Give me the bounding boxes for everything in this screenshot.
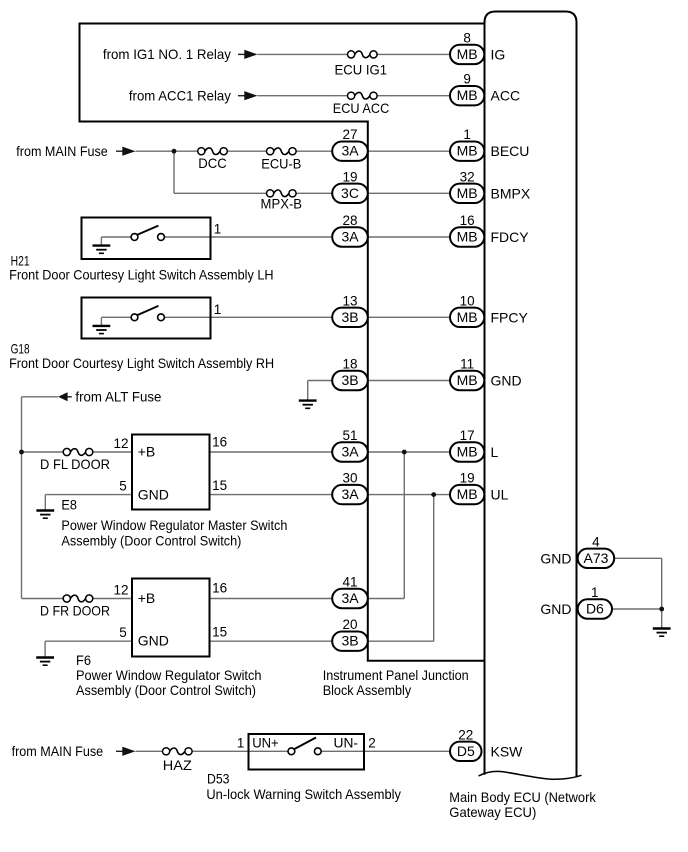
svg-text:MB: MB <box>457 46 478 62</box>
svg-text:5: 5 <box>119 479 127 494</box>
svg-text:ECU IG1: ECU IG1 <box>335 61 388 77</box>
svg-text:15: 15 <box>212 624 227 639</box>
svg-text:13: 13 <box>342 293 357 308</box>
svg-text:16: 16 <box>212 581 227 596</box>
svg-text:1: 1 <box>237 736 245 751</box>
svg-text:GND: GND <box>138 633 169 649</box>
svg-text:3A: 3A <box>341 590 359 606</box>
svg-text:4: 4 <box>592 534 600 549</box>
svg-text:MB: MB <box>457 185 478 201</box>
svg-text:3A: 3A <box>341 486 359 502</box>
svg-text:GND: GND <box>491 373 522 389</box>
svg-text:3A: 3A <box>341 143 359 159</box>
svg-text:BMPX: BMPX <box>491 185 531 201</box>
svg-text:KSW: KSW <box>491 743 524 759</box>
svg-text:UL: UL <box>491 487 509 503</box>
svg-text:+B: +B <box>138 443 156 459</box>
svg-text:19: 19 <box>460 471 475 486</box>
svg-text:30: 30 <box>342 471 357 486</box>
svg-text:L: L <box>491 444 499 460</box>
svg-text:MB: MB <box>457 87 478 103</box>
svg-text:3B: 3B <box>341 372 358 388</box>
svg-text:A73: A73 <box>584 550 609 566</box>
svg-text:ECU-B: ECU-B <box>261 155 301 171</box>
svg-text:11: 11 <box>460 357 474 372</box>
svg-text:16: 16 <box>460 213 475 228</box>
svg-text:GND: GND <box>540 601 571 617</box>
svg-text:MB: MB <box>457 444 478 460</box>
svg-text:MB: MB <box>457 309 478 325</box>
svg-text:from ALT Fuse: from ALT Fuse <box>75 389 161 405</box>
svg-text:MB: MB <box>457 143 478 159</box>
svg-text:DCC: DCC <box>198 155 227 171</box>
svg-text:Main Body ECU (Network: Main Body ECU (Network <box>449 789 596 805</box>
svg-text:Power Window Regulator Master: Power Window Regulator Master Switch <box>61 517 287 533</box>
svg-text:5: 5 <box>119 625 127 640</box>
svg-text:15: 15 <box>212 478 227 493</box>
svg-text:3C: 3C <box>341 185 359 201</box>
svg-text:HAZ: HAZ <box>163 757 192 773</box>
svg-text:FDCY: FDCY <box>491 229 530 245</box>
svg-text:32: 32 <box>460 169 475 184</box>
svg-text:F6: F6 <box>76 652 91 668</box>
svg-text:ACC: ACC <box>491 88 521 104</box>
svg-text:16: 16 <box>212 434 227 449</box>
svg-text:Instrument Panel Junction: Instrument Panel Junction <box>323 667 469 683</box>
svg-text:12: 12 <box>113 582 128 597</box>
svg-text:IG: IG <box>491 46 506 62</box>
svg-text:MB: MB <box>457 486 478 502</box>
svg-text:UN-: UN- <box>334 735 359 751</box>
svg-text:Assembly (Door Control Switch): Assembly (Door Control Switch) <box>76 682 256 698</box>
svg-text:MB: MB <box>457 372 478 388</box>
svg-text:22: 22 <box>458 727 473 742</box>
svg-text:10: 10 <box>460 293 475 308</box>
svg-text:41: 41 <box>342 575 357 590</box>
svg-text:Block Assembly: Block Assembly <box>323 682 412 698</box>
svg-text:E8: E8 <box>61 497 77 513</box>
svg-text:1: 1 <box>591 585 599 600</box>
svg-text:1: 1 <box>214 222 222 237</box>
svg-text:17: 17 <box>460 428 475 443</box>
svg-text:2: 2 <box>368 736 376 751</box>
svg-text:from IG1 NO. 1 Relay: from IG1 NO. 1 Relay <box>103 46 231 62</box>
svg-text:Front Door Courtesy Light Swit: Front Door Courtesy Light Switch Assembl… <box>9 266 274 282</box>
svg-text:MPX-B: MPX-B <box>261 196 303 212</box>
svg-text:18: 18 <box>342 357 357 372</box>
svg-text:GND: GND <box>138 486 169 502</box>
svg-text:D53: D53 <box>207 771 230 787</box>
svg-text:27: 27 <box>342 127 357 142</box>
svg-text:FPCY: FPCY <box>491 309 529 325</box>
svg-text:+B: +B <box>138 590 156 606</box>
svg-text:Front Door Courtesy Light Swit: Front Door Courtesy Light Switch Assembl… <box>9 355 274 371</box>
svg-text:3B: 3B <box>341 309 358 325</box>
svg-text:D6: D6 <box>586 601 604 617</box>
svg-text:3B: 3B <box>341 633 358 649</box>
svg-text:8: 8 <box>463 30 471 45</box>
svg-text:GND: GND <box>540 550 571 566</box>
svg-text:28: 28 <box>342 213 357 228</box>
svg-text:12: 12 <box>113 436 128 451</box>
svg-text:Gateway ECU): Gateway ECU) <box>449 804 536 820</box>
svg-text:D5: D5 <box>457 743 475 759</box>
svg-text:Assembly (Door Control Switch): Assembly (Door Control Switch) <box>61 532 241 548</box>
svg-text:51: 51 <box>342 428 357 443</box>
svg-text:from MAIN Fuse: from MAIN Fuse <box>12 743 104 759</box>
svg-text:9: 9 <box>463 72 471 87</box>
svg-text:from MAIN Fuse: from MAIN Fuse <box>16 143 108 159</box>
svg-text:ECU ACC: ECU ACC <box>333 100 390 116</box>
svg-text:1: 1 <box>214 302 222 317</box>
svg-text:UN+: UN+ <box>252 735 279 751</box>
svg-text:from ACC1 Relay: from ACC1 Relay <box>129 88 231 104</box>
svg-text:20: 20 <box>342 617 357 632</box>
svg-text:Un-lock Warning Switch Assembl: Un-lock Warning Switch Assembly <box>206 786 401 802</box>
svg-text:3A: 3A <box>341 229 359 245</box>
svg-text:19: 19 <box>342 169 357 184</box>
svg-text:3A: 3A <box>341 444 359 460</box>
svg-text:Power Window Regulator Switch: Power Window Regulator Switch <box>76 667 262 683</box>
svg-text:MB: MB <box>457 229 478 245</box>
svg-text:1: 1 <box>463 127 471 142</box>
svg-text:D FR DOOR: D FR DOOR <box>40 603 110 619</box>
svg-text:BECU: BECU <box>491 143 530 159</box>
svg-text:D FL DOOR: D FL DOOR <box>40 456 110 472</box>
